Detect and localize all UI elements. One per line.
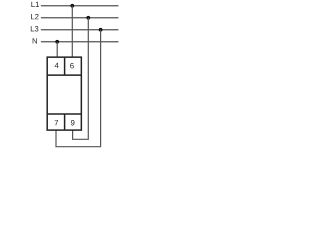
device outline U1 — [47, 57, 81, 130]
label L2 — [31, 14, 39, 19]
divider between terminal 7 and 9 — [64, 114, 66, 130]
wire L1 to terminal 6 — [71, 6, 73, 58]
pin label 6 — [70, 63, 74, 68]
node junction on N — [55, 40, 59, 44]
wire N to terminal 4 — [56, 42, 58, 58]
wire L3 to terminal 7 — [56, 30, 101, 147]
wire L1 bus line — [41, 5, 119, 7]
wire L3 bus line — [41, 29, 119, 31]
label L3 — [31, 26, 39, 31]
label L1 — [31, 2, 39, 7]
device top terminal strip divider — [47, 74, 81, 76]
pin label 7 — [55, 120, 59, 125]
label N — [33, 38, 37, 43]
divider between terminal 4 and 6 — [64, 57, 66, 75]
node junction on L1 — [70, 4, 74, 8]
pin label 9 — [71, 120, 75, 125]
wire L2 bus line — [41, 17, 119, 19]
wire N bus line — [41, 41, 119, 43]
wire L2 to terminal 9 — [73, 18, 89, 140]
device bottom terminal strip divider — [47, 113, 81, 115]
node junction on L3 — [99, 28, 103, 32]
pin label 4 — [55, 63, 59, 68]
node junction on L2 — [86, 16, 90, 20]
